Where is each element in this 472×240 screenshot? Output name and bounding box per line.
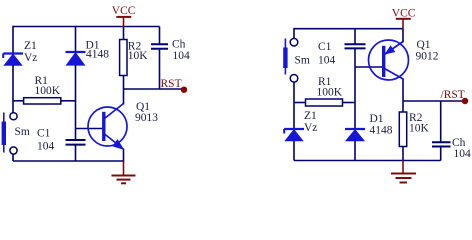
label RST (left) — [161, 78, 182, 90]
label R1 — [35, 75, 49, 87]
resistor R2 (left) — [120, 40, 127, 76]
transistor Q1 9013 (left, NPN) — [88, 104, 127, 149]
label Ch (right) — [452, 137, 466, 149]
svg-text:104: 104 — [454, 148, 472, 160]
wire left rail middle (Z1 to Sm) — [12, 65, 14, 112]
wire R1 left lead (right circuit) — [294, 102, 306, 104]
wire top rail right circuit — [294, 28, 403, 30]
wire R1 right lead to D1 branch — [343, 102, 356, 104]
label Z1 (right) — [304, 110, 317, 122]
svg-text:4148: 4148 — [86, 49, 109, 61]
svg-text:C1: C1 — [37, 128, 51, 140]
capacitor C1 (left) — [66, 140, 86, 161]
wire base wire Q1 left — [76, 128, 103, 130]
label Z1 — [24, 40, 37, 52]
wire top rail left circuit — [13, 26, 160, 28]
capacitor Ch (right) — [432, 142, 451, 160]
node R1-left junction — [13, 100, 24, 102]
label D1 — [86, 40, 100, 52]
wire collector down to RST junction — [402, 79, 404, 112]
svg-text:VCC: VCC — [392, 8, 416, 20]
svg-text:9012: 9012 — [416, 51, 439, 63]
svg-text:C1: C1 — [318, 41, 332, 53]
power VCC (left) — [112, 5, 136, 27]
svg-text:/RST: /RST — [441, 89, 465, 101]
label 4148 — [86, 49, 109, 61]
resistor R2 (right) — [399, 112, 406, 147]
svg-text:Q1: Q1 — [417, 39, 431, 51]
label Vz — [24, 52, 37, 64]
label 9013 — [135, 112, 158, 124]
label 104 (C1) — [37, 141, 55, 153]
switch Sm (left) — [2, 113, 17, 155]
label Ch (left) — [172, 38, 186, 50]
wire emitter to bottom rail — [123, 149, 125, 162]
svg-text:104: 104 — [173, 50, 191, 62]
power VCC (right) — [392, 8, 416, 30]
label R1 (right) — [318, 76, 332, 88]
node RST dot (left) — [181, 87, 187, 93]
wire Ch top (left) — [159, 27, 161, 45]
wire C1/base junction down to R1/D1 — [354, 67, 356, 129]
wire D1 branch top — [75, 27, 77, 53]
label Vz (right) — [304, 122, 317, 134]
wire C1 top (right) — [354, 29, 356, 44]
wire R2 bottom to RST junction — [123, 76, 125, 90]
label D1 (right) — [370, 113, 384, 125]
label R2 — [128, 40, 142, 52]
label 104 (Ch left) — [173, 50, 191, 62]
wire D1 bottom to rail — [354, 141, 356, 161]
wire base wire Q1 right — [355, 66, 383, 68]
label 10K — [128, 50, 149, 62]
switch Sm (right) — [283, 38, 298, 82]
wire collector to junction — [123, 89, 125, 105]
label C1 — [37, 128, 51, 140]
ground (right) — [391, 161, 416, 183]
svg-text:100K: 100K — [317, 87, 343, 99]
label C1 (right) — [318, 41, 332, 53]
svg-text:Vz: Vz — [304, 122, 317, 134]
wire RST net (left) — [124, 88, 184, 90]
wire RST net (right) — [403, 100, 464, 102]
node RST dot (right) — [462, 98, 468, 104]
label 104 (Ch right) — [454, 148, 472, 160]
svg-text:Z1: Z1 — [304, 110, 317, 122]
wire Z1 bottom to rail corner — [293, 141, 295, 161]
wire Sm bottom to R1 junction — [293, 82, 295, 103]
wire left rail upper (top rail to Z1) — [12, 26, 14, 54]
zener diode Z1 (left) — [3, 54, 23, 66]
label 100K — [35, 85, 61, 97]
resistor R1 (right) — [306, 99, 343, 106]
label Q1 (left) — [136, 101, 150, 113]
label 104 (C1 right) — [318, 55, 336, 67]
label Q1 (right) — [417, 39, 431, 51]
wire Sm bottom to bottom rail — [12, 154, 14, 161]
wire left rail to Z1 — [293, 103, 295, 130]
wire emitter to top rail (right) — [402, 29, 404, 43]
transistor Q1 9012 (right, PNP) — [369, 40, 409, 80]
wire bottom rail left circuit — [13, 160, 124, 162]
label 100K (right) — [317, 87, 343, 99]
wire Ch top (right) — [440, 101, 442, 142]
svg-text:10K: 10K — [128, 50, 149, 62]
label Sm (right) — [295, 55, 310, 67]
label 9012 — [416, 51, 439, 63]
wire top left corner down to Sm — [293, 28, 295, 38]
svg-text:VCC: VCC — [112, 5, 136, 17]
label /RST — [441, 89, 465, 101]
svg-text:Ch: Ch — [172, 38, 186, 50]
capacitor Ch (left) — [151, 44, 168, 89]
diode D1 (right) — [345, 129, 365, 141]
svg-text:4148: 4148 — [370, 125, 393, 137]
svg-text:104: 104 — [318, 55, 336, 67]
svg-text:D1: D1 — [370, 113, 384, 125]
wire R2 bottom to rail — [402, 147, 404, 161]
svg-text:Vz: Vz — [24, 52, 37, 64]
svg-text:Z1: Z1 — [24, 40, 37, 52]
svg-text:Sm: Sm — [295, 55, 310, 67]
svg-text:10K: 10K — [409, 123, 430, 135]
svg-text:RST: RST — [161, 78, 182, 90]
svg-text:100K: 100K — [35, 85, 61, 97]
label Sm — [15, 126, 30, 138]
wire VCC drop to R2 — [123, 27, 125, 40]
svg-text:Sm: Sm — [15, 126, 30, 138]
wire bottom rail right circuit — [294, 160, 441, 162]
resistor R1 (left) — [24, 98, 61, 104]
diode D1 (left) — [66, 52, 86, 65]
label 4148 (right) — [370, 125, 393, 137]
label 10K (right) — [409, 123, 430, 135]
svg-text:9013: 9013 — [135, 112, 158, 124]
svg-text:104: 104 — [37, 141, 55, 153]
capacitor C1 (right) — [345, 44, 366, 67]
label R2 (right) — [409, 112, 423, 124]
wire D1 bottom to base junction — [75, 65, 77, 140]
zener diode Z1 (right) — [284, 129, 304, 141]
wire R1 right lead — [61, 100, 76, 102]
ground (left) — [112, 161, 136, 183]
